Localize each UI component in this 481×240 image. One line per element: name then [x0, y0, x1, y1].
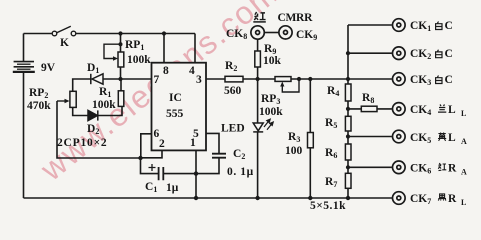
svg-text:L: L	[448, 132, 456, 144]
wiper wire of RP1	[104, 44, 121, 58]
junction dot rail/RP1	[118, 31, 122, 35]
capacitor C1 1u electrolytic	[159, 167, 164, 180]
wire: right rail x=348	[347, 25, 349, 198]
potentiometer RP1 100k	[118, 52, 124, 67]
svg-text:9V: 9V	[41, 62, 56, 74]
label CK4 blue L L	[410, 104, 466, 118]
wire: LED vertical	[257, 79, 259, 198]
svg-text:100k: 100k	[127, 54, 151, 66]
svg-text:IC: IC	[169, 92, 182, 104]
diode D1 (cathode left)	[91, 74, 103, 84]
resistor R9 10k	[255, 51, 261, 67]
junction dot pin1/ground	[194, 196, 198, 200]
svg-text:R: R	[448, 193, 457, 205]
wiper wire of RP2	[57, 100, 66, 102]
svg-text:2: 2	[159, 138, 165, 150]
jack CK7	[393, 192, 406, 205]
wire: RP1 bottom lead	[120, 67, 122, 79]
wire: R3 vertical	[309, 79, 311, 198]
wire: R2 to RP3	[243, 78, 275, 80]
label red (hong) above CK8 with underline	[254, 12, 265, 20]
capacitor C2 0.1u	[212, 154, 226, 158]
jack CK1	[393, 19, 406, 32]
wire: pin 6 lead to node 2/6	[141, 134, 152, 158]
resistor R6	[345, 144, 351, 160]
resistor R4	[345, 84, 351, 101]
svg-text:K: K	[60, 37, 69, 49]
wire: pin 5 lead to C2	[206, 133, 219, 153]
wire: CK6 row	[348, 166, 392, 168]
svg-text:3: 3	[196, 74, 202, 86]
svg-text:C: C	[445, 48, 453, 60]
svg-text:4: 4	[189, 65, 195, 77]
battery B 9V	[13, 62, 35, 72]
svg-text:100k: 100k	[259, 106, 283, 118]
jack CK6	[393, 161, 406, 174]
junction dot rail/CK5 row	[346, 134, 350, 138]
junction dot LED/ground	[255, 196, 259, 200]
resistor R2 560	[225, 76, 243, 82]
resistor R7	[345, 173, 351, 188]
wire: RP2 wiper down to node 2/6	[57, 101, 141, 158]
potentiometer RP3 100k	[275, 77, 291, 82]
wire: CK8 down to R9	[257, 39, 259, 51]
junction dot node 2/6	[138, 156, 142, 160]
potentiometer RP2 470k	[70, 91, 76, 107]
svg-text:C: C	[445, 74, 453, 86]
svg-text:2CP10×2: 2CP10×2	[57, 137, 107, 149]
wire: CK8 to CK9	[264, 32, 279, 34]
switch K	[52, 26, 76, 36]
junction dot pin8/rail	[162, 31, 166, 35]
junction dot rail/CK4 row	[346, 107, 350, 111]
svg-text:CMRR: CMRR	[278, 12, 314, 24]
label CK3 white C	[410, 74, 453, 87]
wire: R1 top lead	[120, 79, 122, 91]
junction dot RP3 wiper tie	[297, 77, 301, 81]
wire: CK4 row with R8	[348, 108, 392, 110]
svg-text:10k: 10k	[263, 55, 282, 67]
jack CK5	[393, 130, 406, 143]
wire: C2 bottom lead to pin1 net	[196, 158, 219, 174]
wire: pin 3 output to R2	[206, 78, 225, 80]
resistor R1 100k	[118, 91, 124, 107]
svg-text:8: 8	[163, 65, 169, 77]
svg-text:470k: 470k	[27, 100, 51, 112]
wire: C1 right lead to pin1 net	[164, 173, 196, 175]
label CK6 red R A	[410, 163, 467, 177]
junction dot R3 top tap	[308, 77, 312, 81]
junction dot RP1 wiper tie	[119, 42, 123, 46]
wire: pin 2 lead to node 2/6	[141, 150, 163, 157]
svg-text:R: R	[448, 163, 457, 175]
svg-text:555: 555	[166, 108, 184, 120]
svg-text:5×5.1k: 5×5.1k	[310, 200, 346, 212]
svg-text:100k: 100k	[92, 99, 116, 111]
wire: top rail from battery to pin4 corner	[24, 33, 196, 35]
junction dot rail/CK3 row	[346, 77, 350, 81]
LED symbol	[253, 123, 263, 132]
wire: CK2 row	[348, 52, 392, 54]
resistor R8	[361, 106, 377, 111]
wire: pin 8 to top rail	[163, 34, 165, 63]
svg-text:560: 560	[224, 85, 242, 97]
wire: pin 1 down to ground rail	[195, 150, 197, 198]
watermark www.elecfans.com	[33, 0, 285, 188]
svg-text:L: L	[461, 109, 466, 118]
wire: D1 net y=79 (RP2 top to pin 7)	[73, 79, 152, 91]
wire: left rail (battery to bottom)	[23, 34, 25, 199]
svg-text:A: A	[461, 137, 467, 146]
jack CK3	[393, 73, 406, 86]
svg-text:L: L	[461, 198, 466, 207]
junction dot R3/ground	[308, 196, 312, 200]
svg-text:L: L	[448, 104, 456, 116]
resistor R5	[345, 116, 351, 131]
label CK2 white C	[410, 48, 453, 61]
wire: CK5 row	[348, 136, 392, 138]
junction dot R9/LED tap	[256, 77, 260, 81]
junction dot rail/CK2 row	[346, 51, 350, 55]
svg-text:1: 1	[190, 137, 196, 149]
wire: C1 left lead from node 2/6	[141, 158, 159, 174]
wire: pin 4 to top rail corner	[194, 34, 196, 63]
resistor R3 100	[308, 133, 314, 148]
svg-text:7: 7	[154, 74, 160, 86]
wire: D2 net y=115.5 (RP2 bottom to R1 bottom)	[73, 106, 122, 115]
svg-text:A: A	[461, 168, 467, 177]
label CK1 white C	[410, 20, 453, 33]
wire: RP3 right to CK3 row	[291, 78, 392, 80]
wire: CK1 row	[348, 24, 392, 26]
svg-text:1μ: 1μ	[166, 182, 179, 194]
plus sign of C1	[149, 164, 156, 171]
junction dot rail/CK6 row	[346, 165, 350, 169]
label CK7 black R L	[410, 193, 466, 207]
junction dot D1 wire / RP1 / R1	[118, 77, 122, 81]
wire: bottom ground rail	[24, 197, 393, 199]
jack CK4	[393, 103, 406, 116]
jack CK2	[393, 47, 406, 60]
svg-text:C: C	[445, 20, 453, 32]
wire: R9 to pin3 net	[257, 67, 259, 79]
jack CK8	[251, 26, 264, 39]
svg-text:0. 1μ: 0. 1μ	[227, 166, 254, 178]
jack CK9	[279, 26, 292, 39]
label CK5 yellow L A	[410, 132, 467, 146]
junction dot C1/C2/pin1	[194, 171, 198, 175]
svg-text:100: 100	[285, 145, 303, 157]
svg-text:LED: LED	[221, 123, 245, 135]
LED arrows	[264, 119, 273, 130]
op IC 555 box	[152, 63, 207, 151]
wire: RP1 top lead from rail	[120, 34, 122, 53]
diode D2 (anode left, cathode right)	[88, 110, 98, 120]
junction dot rail/ground	[346, 196, 350, 200]
wiper wire of RP3	[282, 81, 299, 92]
